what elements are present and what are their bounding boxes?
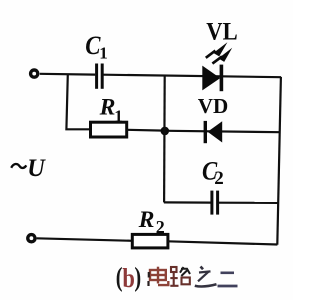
svg-text:b: b — [122, 263, 134, 293]
capacitor C1 — [97, 64, 103, 89]
label C2 — [202, 157, 224, 189]
wire right vertical — [277, 77, 281, 245]
svg-text:): ) — [134, 262, 141, 292]
LED VL — [202, 65, 223, 92]
label ~U source — [11, 155, 46, 182]
wire elbow to C2 — [164, 201, 211, 203]
diode VD — [204, 121, 223, 143]
wire C2 right to right vertical — [219, 202, 279, 204]
caption glyph dian (electric) — [149, 267, 169, 286]
wire from R1 to junction — [127, 129, 165, 132]
node junction dot — [161, 127, 170, 136]
svg-text:1: 1 — [114, 107, 123, 126]
label R1 — [99, 95, 123, 126]
caption (b) — [116, 262, 141, 293]
caption glyph lu (road) — [170, 267, 190, 286]
resistor R1 — [91, 122, 127, 137]
svg-text:VL: VL — [206, 18, 237, 45]
wire top-right from C1 to right corner — [103, 75, 281, 78]
svg-text:U: U — [27, 155, 46, 182]
wire left branch down to R1 — [66, 74, 90, 129]
svg-text:2: 2 — [214, 168, 224, 189]
label C1 — [85, 31, 108, 62]
svg-text:2: 2 — [156, 217, 165, 237]
svg-text:VD: VD — [198, 94, 229, 118]
wire bottom-right from R2 to right corner — [168, 241, 278, 244]
svg-text:R: R — [99, 95, 116, 120]
svg-text:R: R — [138, 207, 155, 232]
terminal top input — [31, 70, 38, 77]
wire bottom-left from terminal to R2 — [37, 238, 133, 241]
capacitor C2 — [212, 191, 218, 215]
wire VD row from junction to right vertical — [169, 131, 280, 132]
wire top-left from terminal to C1 — [40, 73, 95, 76]
label R2 — [138, 207, 165, 237]
caption glyph zhi (of) — [195, 267, 217, 287]
wire middle vertical — [163, 75, 166, 202]
terminal bottom input — [28, 235, 35, 242]
light emission arrows of VL — [206, 42, 232, 63]
resistor R2 — [132, 234, 168, 248]
caption glyph er (two) — [218, 273, 238, 286]
svg-text:1: 1 — [99, 44, 108, 63]
